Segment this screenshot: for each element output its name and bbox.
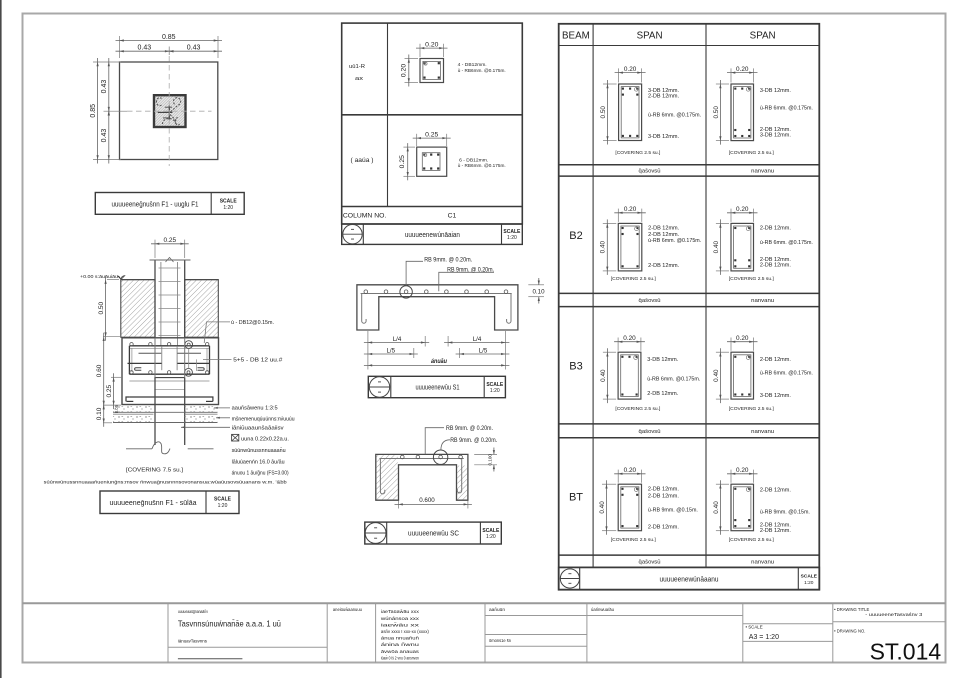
svg-text:nanvanu: nanvanu [751, 429, 774, 435]
slab SC rebar [379, 458, 463, 460]
svg-text:[COVERING 2.5 su.]: [COVERING 2.5 su.] [729, 406, 774, 411]
slab SC left leg hatch [377, 455, 398, 499]
svg-text:[COVERING 7.5 su.]: [COVERING 7.5 su.] [126, 468, 184, 474]
svg-text:1:20: 1:20 [223, 205, 233, 211]
column top break line [150, 259, 191, 261]
section extension lines left [103, 336, 121, 338]
svg-text:0.600: 0.600 [419, 497, 435, 504]
svg-text:1:20: 1:20 [490, 388, 500, 394]
slab S1 dim L/5 right [456, 353, 510, 355]
svg-text:0.43: 0.43 [138, 45, 152, 52]
svg-text:SCALE: SCALE [214, 496, 232, 502]
svg-text:ù - RB6mm. @0.175m.: ù - RB6mm. @0.175m. [458, 163, 506, 169]
column section 0.25 stirrup [422, 153, 440, 171]
svg-text:L/5: L/5 [386, 347, 395, 354]
svg-text:āvwōa anauas: āvwōa anauas [381, 649, 420, 654]
footing concrete outline [122, 338, 219, 405]
svg-text:Tasvnnsúnuẃnan̄āe a.a.a. 1: Tasvnnsúnuẃnan̄āe a.a.a. 1 uū [178, 618, 281, 628]
svg-text:0.20: 0.20 [624, 66, 637, 73]
title bar - slab SC [365, 522, 502, 544]
svg-text:SCALE: SCALE [801, 573, 818, 579]
svg-text:0.43: 0.43 [187, 45, 201, 52]
beam section rect [731, 223, 754, 271]
svg-text:0.20: 0.20 [425, 41, 438, 48]
dimension 0.85 top [116, 40, 223, 42]
svg-text:0.05: 0.05 [114, 404, 119, 413]
svg-text:q̄as̄ovsū: q̄as̄ovsū [639, 298, 661, 304]
svg-text:uū1-R: uū1-R [349, 64, 365, 70]
column section 0.25 rebar dots [423, 154, 425, 156]
svg-text:B3: B3 [569, 361, 582, 373]
beam table verticals [592, 24, 594, 568]
svg-text:[COVERING 2.5 su.]: [COVERING 2.5 su.] [729, 537, 774, 542]
svg-text:uuuueeneḡnus̄nn F1 - uuglu F1: uuuueeneḡnus̄nn F1 - uuglu F1 [112, 199, 199, 208]
slab SC dim 0.600 [398, 501, 400, 509]
slab SC leader 1 [425, 428, 444, 455]
svg-text:BEAM: BEAM [562, 30, 590, 41]
ground level line [121, 279, 155, 281]
slab S1 dim 0.10 [528, 284, 544, 286]
svg-text:RB 9mm. @ 0.20m.: RB 9mm. @ 0.20m. [424, 256, 472, 263]
svg-text:3-DB 12mm.: 3-DB 12mm. [648, 134, 679, 140]
svg-text:iāniūuaauns̄aāaiisv: iāniūuaauns̄aāaiisv [232, 425, 285, 431]
svg-text:BT: BT [569, 492, 583, 504]
svg-text:iūaw̄ 0 Is̄ 2 vnu 0 ansnvon: iūaw̄ 0 Is̄ 2 vnu 0 ansnvon [381, 655, 419, 660]
svg-text:( aaúa ): ( aaúa ) [351, 158, 374, 164]
dimension 0.43 0.43 left [108, 58, 110, 115]
svg-text:0.25: 0.25 [399, 155, 406, 168]
pile top edge [154, 377, 184, 379]
svg-text:6 - DB12mm.: 6 - DB12mm. [459, 157, 488, 163]
svg-text:4 - DB12mm.: 4 - DB12mm. [458, 62, 487, 68]
footing cage vertical edges [128, 346, 130, 374]
svg-text:2-DB 12mm.: 2-DB 12mm. [648, 487, 679, 493]
beam dim height [716, 351, 729, 353]
title bar - column sections [342, 224, 523, 244]
svg-text:2-DB 12mm.: 2-DB 12mm. [760, 357, 791, 363]
leader lean concrete [214, 407, 230, 409]
beam table header row line [559, 45, 820, 47]
svg-text:3-DB 12mm.: 3-DB 12mm. [760, 88, 791, 94]
svg-text:2-DB 12mm.: 2-DB 12mm. [760, 226, 791, 232]
slab SC left hook [380, 459, 384, 494]
title bar - foundation section F1 [100, 491, 239, 514]
foundation plan F1 outline [120, 62, 218, 160]
svg-text:0.20: 0.20 [400, 64, 407, 77]
slab S1 left hook [362, 294, 366, 324]
dimension 0.85 left [97, 58, 99, 164]
svg-text:SPAN: SPAN [637, 30, 663, 41]
svg-text:2-DB 12mm.: 2-DB 12mm. [648, 493, 679, 499]
svg-text:ánina n̄wnu: ánina n̄wnu [381, 642, 420, 647]
beam dim height [602, 483, 616, 485]
svg-text:[COVERING 2.5 su.]: [COVERING 2.5 su.] [729, 276, 774, 281]
svg-text:ù-RB 6mm. @0.175m.: ù-RB 6mm. @0.175m. [647, 377, 700, 383]
beam section rect [731, 484, 754, 531]
svg-text:1:20: 1:20 [486, 534, 496, 540]
svg-text:uuuueeneḡnus̄nn F1 - sūlāa: uuuueeneḡnus̄nn F1 - sūlāa [110, 498, 198, 507]
svg-text:0.20: 0.20 [623, 335, 636, 342]
slab SC right leg hatch [457, 466, 467, 500]
beam dim height [716, 222, 729, 224]
scale cell [743, 623, 833, 625]
svg-text:0.40: 0.40 [713, 240, 720, 253]
slab S1 balloon circle [400, 286, 412, 298]
beam table subrow lines [559, 423, 820, 425]
svg-text:0.85: 0.85 [90, 104, 97, 118]
footing mid bars 5+5 [139, 352, 162, 354]
svg-text:[COVERING 2.5 su.]: [COVERING 2.5 su.] [611, 276, 656, 281]
svg-text:• DRAWING TITLE: • DRAWING TITLE [834, 607, 869, 612]
section dimension 0.60 [103, 333, 105, 409]
svg-text:ù-RB 9mm. @0.15m.: ù-RB 9mm. @0.15m. [648, 507, 698, 513]
svg-text:0.50: 0.50 [600, 106, 607, 119]
beam section rect [619, 84, 642, 141]
svg-text:0.85: 0.85 [162, 34, 176, 41]
svg-text:úańnwua/āu: úańnwua/āu [591, 607, 615, 612]
section dimension 0.25 inner [113, 373, 115, 409]
slab SC outline [376, 454, 468, 500]
svg-text:0.50: 0.50 [713, 106, 720, 119]
svg-text:0.25: 0.25 [425, 131, 438, 138]
slab SC balloon circle [433, 450, 447, 464]
svg-text:uuuueenewūu S1: uuuueenewūu S1 [416, 383, 460, 392]
soil hatch left block [121, 280, 155, 338]
svg-text:[COVERING 2.5 su.]: [COVERING 2.5 su.] [615, 406, 660, 411]
column center cross marks in plan [158, 111, 173, 113]
svg-text:2-DB 12mm.: 2-DB 12mm. [648, 263, 679, 269]
beam dim width [730, 209, 732, 222]
svg-text:q̄as̄ovsū: q̄as̄ovsū [639, 559, 661, 565]
svg-text:ax: ax [355, 76, 363, 82]
column table row divider 1 [342, 114, 523, 116]
footing bottom bar with circles [129, 373, 209, 375]
svg-text:[COVERING 2.5 su.]: [COVERING 2.5 su.] [729, 150, 774, 155]
plan extension lines top [119, 36, 121, 58]
slab S1 dim L/4 left [364, 342, 429, 344]
title block top line [23, 602, 946, 604]
svg-text:• SCALE: • SCALE [746, 625, 763, 630]
svg-text:0.25: 0.25 [164, 237, 177, 244]
dimension 0.25 column top [154, 240, 156, 258]
svg-text:0.60: 0.60 [96, 364, 103, 377]
svg-text:ù-RB 6mm. @0.175m.: ù-RB 6mm. @0.175m. [760, 240, 813, 246]
slab S1 bottom extension lines [367, 331, 369, 370]
column faces through footing [154, 338, 156, 378]
slab S1 right hook [507, 294, 511, 324]
svg-text:L/4: L/4 [393, 336, 402, 343]
svg-text:iaeTaūaw̄āu xxx: iaeTaūaw̄āu xxx [381, 609, 420, 614]
beam dim width [617, 209, 619, 222]
svg-text:0.43: 0.43 [101, 80, 108, 94]
column C1 hatched square in plan [154, 95, 186, 127]
svg-text:B2: B2 [569, 230, 582, 242]
svg-text:ù - DB12@0.15m.: ù - DB12@0.15m. [231, 320, 274, 326]
sand layer [113, 415, 153, 422]
beam section rect [618, 352, 641, 399]
svg-text:A3 = 1:20: A3 = 1:20 [749, 634, 779, 641]
svg-text:q̄as̄ovsū: q̄as̄ovsū [639, 429, 661, 435]
svg-text:3-DB 12mm.: 3-DB 12mm. [760, 393, 791, 399]
svg-text:ù-RB 6mm. @0.175m.: ù-RB 6mm. @0.175m. [648, 238, 701, 244]
svg-text:0.40: 0.40 [713, 369, 720, 382]
title bar - beam sections [559, 567, 820, 589]
svg-text:wúnánsoa xxx: wúnánsoa xxx [381, 616, 420, 621]
slab SC right hook [457, 459, 461, 493]
page left edge line [0, 0, 2, 678]
pile shaft [154, 378, 156, 445]
dimension 0.25 left row2 [403, 146, 415, 148]
svg-text:asn̄v xxxx I xxx-xx (xxxx): asn̄v xxxx I xxx-xx (xxxx) [381, 629, 430, 634]
svg-text:3-DB 12mm.: 3-DB 12mm. [647, 357, 678, 363]
plan extension lines left [93, 61, 121, 63]
svg-text:0.40: 0.40 [600, 240, 607, 253]
beam dim width [730, 338, 732, 351]
svg-text:2-DB 12mm.: 2-DB 12mm. [647, 391, 678, 397]
svg-text:ù-RB 6mm. @0.175m.: ù-RB 6mm. @0.175m. [648, 113, 701, 119]
svg-text:2-DB 12mm.: 2-DB 12mm. [760, 528, 791, 534]
svg-text:ōmons1e s̄n: ōmons1e s̄n [489, 638, 512, 643]
column rebar vertical lines [160, 262, 162, 346]
svg-text:aaun̄sāwenu 1:3:5: aaun̄sāwenu 1:3:5 [232, 405, 278, 412]
svg-text:ù-RB 6mm. @0.175m.: ù-RB 6mm. @0.175m. [760, 371, 813, 377]
plan horizontal centerline [127, 110, 212, 112]
svg-text:lāluúaenńn 16.0 āu/āu: lāluúaenńn 16.0 āu/āu [232, 459, 285, 465]
svg-text:3-DB 12mm.: 3-DB 12mm. [760, 133, 791, 139]
column section 0.20 rebar dots [423, 62, 425, 64]
leader sand layer [216, 417, 230, 419]
column stirrup ticks [159, 267, 181, 269]
slab SC bar circles [401, 455, 405, 459]
column section 0.25 outer [417, 147, 447, 176]
dimension 0.20 top row1 [419, 44, 421, 57]
section dimension 0.50 [107, 279, 119, 281]
slab SC leader 2 [441, 440, 450, 450]
svg-text:1:20: 1:20 [507, 235, 517, 241]
signature line [178, 658, 243, 660]
title bar - foundation plan F1 [95, 193, 244, 215]
svg-text:ù-RB 9mm. @0.15m.: ù-RB 9mm. @0.15m. [760, 510, 810, 516]
leader 5+5 DB12 [203, 358, 232, 360]
slab S1 dim span [364, 364, 510, 366]
svg-text:ù-RB 6mm. @0.175m.: ù-RB 6mm. @0.175m. [760, 106, 813, 112]
svg-text:0.20: 0.20 [736, 206, 749, 213]
svg-text:SCALE: SCALE [220, 198, 238, 204]
pile break line and bottom [126, 448, 152, 450]
section dimension 0.10 [103, 401, 105, 427]
beam dim width [618, 68, 620, 82]
beam table subrow lines [559, 554, 820, 556]
dimension 0.20 left row1 [405, 58, 419, 60]
svg-text:0.20: 0.20 [736, 335, 749, 342]
beam dim width [730, 68, 732, 82]
slab S1 top rebar [361, 293, 512, 295]
soil hatch right block [185, 280, 219, 338]
title block verticals [167, 603, 169, 662]
svg-text:ù - RB6mm. @0.175m.: ù - RB6mm. @0.175m. [458, 68, 506, 74]
svg-text:uuuueaaūḡnanaān̄v: uuuueaaūḡnanaān̄v [178, 609, 209, 614]
pile size symbol and note [232, 434, 239, 441]
svg-text:súúnwūnussnnuaaan̄ueniunḡn: súúnwūnussnnuaaan̄ueniunḡns:msov ńn… [44, 479, 287, 486]
column table outline [342, 23, 523, 224]
svg-text:2-DB 12mm.: 2-DB 12mm. [648, 525, 679, 531]
project cell divider [168, 646, 327, 648]
svg-text:COLUMN NO.: COLUMN NO. [343, 212, 387, 219]
svg-text:0.20: 0.20 [736, 467, 749, 474]
svg-text:aneiūuw̄aanuuu: aneiūuw̄aanuuu [333, 607, 363, 612]
column rebar hook loops in plan [156, 98, 180, 125]
svg-text:2-DB 12mm.: 2-DB 12mm. [648, 226, 679, 232]
svg-text:nanvanu: nanvanu [751, 559, 774, 565]
svg-text:aan̄uūn: aan̄uūn [489, 607, 506, 612]
beam dim height [603, 351, 616, 353]
footing lower hooks [135, 368, 142, 371]
svg-text:ST.014: ST.014 [870, 639, 942, 665]
plan vertical centerline [168, 56, 170, 166]
svg-text:0.40: 0.40 [713, 501, 720, 514]
svg-text:L/5: L/5 [479, 347, 488, 354]
svg-text:• DRAWING NO.: • DRAWING NO. [834, 629, 865, 634]
svg-text:+0.00 s:āuāuiāu: +0.00 s:āuāuiāu [80, 274, 119, 279]
bottom bar end hooks [126, 397, 129, 401]
column section 0.20 outer [420, 59, 444, 83]
svg-text:0.20: 0.20 [624, 206, 637, 213]
svg-text:5+5 - DB 12 uu.#: 5+5 - DB 12 uu.# [233, 358, 282, 364]
svg-text:- uuuueeneTasvaśnv 3: - uuuueeneTasvaśnv 3 [865, 612, 923, 617]
svg-text:RB 9mm. @ 0.20m.: RB 9mm. @ 0.20m. [446, 425, 493, 432]
svg-text:0.20: 0.20 [736, 66, 749, 73]
slab S1 bar circles [364, 290, 368, 294]
dimension 0.25 top row2 [416, 134, 418, 146]
svg-text:[COVERING 2.5 su.]: [COVERING 2.5 su.] [615, 150, 660, 155]
svg-text:1:20: 1:20 [218, 503, 228, 509]
slab S1 dim L/4 right [444, 342, 509, 344]
beam dim height [603, 83, 617, 85]
svg-text:RB 9mm. @ 0.20m.: RB 9mm. @ 0.20m. [447, 266, 494, 273]
balloon circle bottom rebar [185, 368, 193, 376]
beam dim width [730, 470, 732, 483]
beam section rect [731, 352, 754, 399]
svg-text:uuuueenewúnāaanu: uuuueenewúnāaanu [660, 574, 719, 583]
svg-text:ánuou 1 āu/ḡnu (FS=3.00): ánuou 1 āu/ḡnu (FS=3.00) [232, 471, 289, 477]
svg-text:nanvanu: nanvanu [751, 169, 774, 175]
slab S1 leader 1 [406, 261, 423, 285]
svg-text:2-DB 12mm.: 2-DB 12mm. [648, 94, 679, 100]
column above ground - outer faces [154, 260, 156, 338]
column table vertical divider [387, 23, 389, 206]
svg-text:1:20: 1:20 [804, 580, 814, 586]
beam table outline [559, 24, 820, 590]
slab S1 dim L/5 left [364, 353, 418, 355]
slab S1 outline [357, 285, 518, 330]
svg-text:iānuavTasvnns: iānuavTasvnns [178, 639, 207, 644]
svg-text:L/4: L/4 [473, 336, 482, 343]
svg-text:0.43: 0.43 [101, 129, 108, 143]
leader stirrup DB12 [204, 322, 230, 343]
svg-text:0.100: 0.100 [488, 454, 493, 466]
svg-text:0.25: 0.25 [106, 384, 113, 397]
lean concrete layer [113, 406, 153, 412]
footing stirrup circles top [130, 343, 133, 346]
svg-text:nanvanu: nanvanu [751, 298, 774, 304]
svg-text:ánuāu: ánuāu [431, 358, 447, 365]
beam table subrow lines [559, 292, 820, 294]
svg-text:0.40: 0.40 [600, 369, 607, 382]
svg-text:0.10: 0.10 [96, 407, 103, 420]
svg-text:0.20: 0.20 [624, 467, 637, 474]
svg-text:C1: C1 [448, 212, 457, 219]
svg-text:q̄as̄ovsū: q̄as̄ovsū [639, 169, 661, 175]
title bar - slab S1 [368, 376, 505, 397]
svg-text:iaew̄āu xx: iaew̄āu xx [381, 622, 421, 627]
footing rebar cage top bar [129, 345, 209, 347]
svg-text:uuna 0.22x0.22a.u.: uuna 0.22x0.22a.u. [241, 436, 289, 442]
footing lower rebar lines [129, 380, 209, 382]
beam section rect [618, 223, 642, 271]
beam dim width [617, 338, 619, 351]
svg-text:súúnwūnussnnuaaan̄u: súúnwūnussnnuaaan̄u [232, 447, 286, 454]
svg-text:SPAN: SPAN [750, 30, 776, 41]
beam dim width [617, 470, 619, 483]
svg-text:uuuueenewūu SC: uuuueenewūu SC [408, 529, 459, 538]
balloon circle top rebar [185, 341, 193, 349]
svg-text:0.40: 0.40 [599, 501, 606, 514]
svg-text:0.50: 0.50 [98, 301, 105, 314]
beam dim height [603, 222, 617, 224]
column section 0.20 stirrup [423, 61, 441, 79]
svg-text:ms̄nemenuqúuúnns:nv́uuúu: ms̄nemenuqúuúnns:nv́uuúu [232, 416, 295, 422]
svg-text:[COVERING 2.5 su.]: [COVERING 2.5 su.] [611, 537, 656, 542]
svg-text:ánua nnuan̄un̄: ánua nnuan̄un̄ [381, 636, 420, 641]
slab S1 leader 2 [439, 272, 494, 291]
svg-text:uuuueenewúnāaian: uuuueenewúnāaian [405, 230, 460, 239]
svg-text:0.10: 0.10 [532, 288, 545, 295]
ground level marker [117, 275, 121, 279]
svg-text:2-DB 12mm.: 2-DB 12mm. [760, 487, 791, 493]
leader pile [181, 426, 230, 428]
column dowels into footing [161, 346, 163, 370]
beam section rect [731, 84, 754, 141]
beam dim height [716, 83, 729, 85]
column table row divider 2 [342, 206, 523, 208]
beam table subrow lines [559, 164, 820, 166]
beam section rect [618, 484, 641, 531]
dimension 0.43 0.43 top [116, 50, 174, 52]
beam dim height [716, 483, 729, 485]
slab SC dim 0.10 right [474, 453, 497, 455]
svg-text:RB 9mm. @ 0.20m.: RB 9mm. @ 0.20m. [450, 437, 497, 444]
svg-text:2-DB 12mm.: 2-DB 12mm. [760, 262, 791, 268]
